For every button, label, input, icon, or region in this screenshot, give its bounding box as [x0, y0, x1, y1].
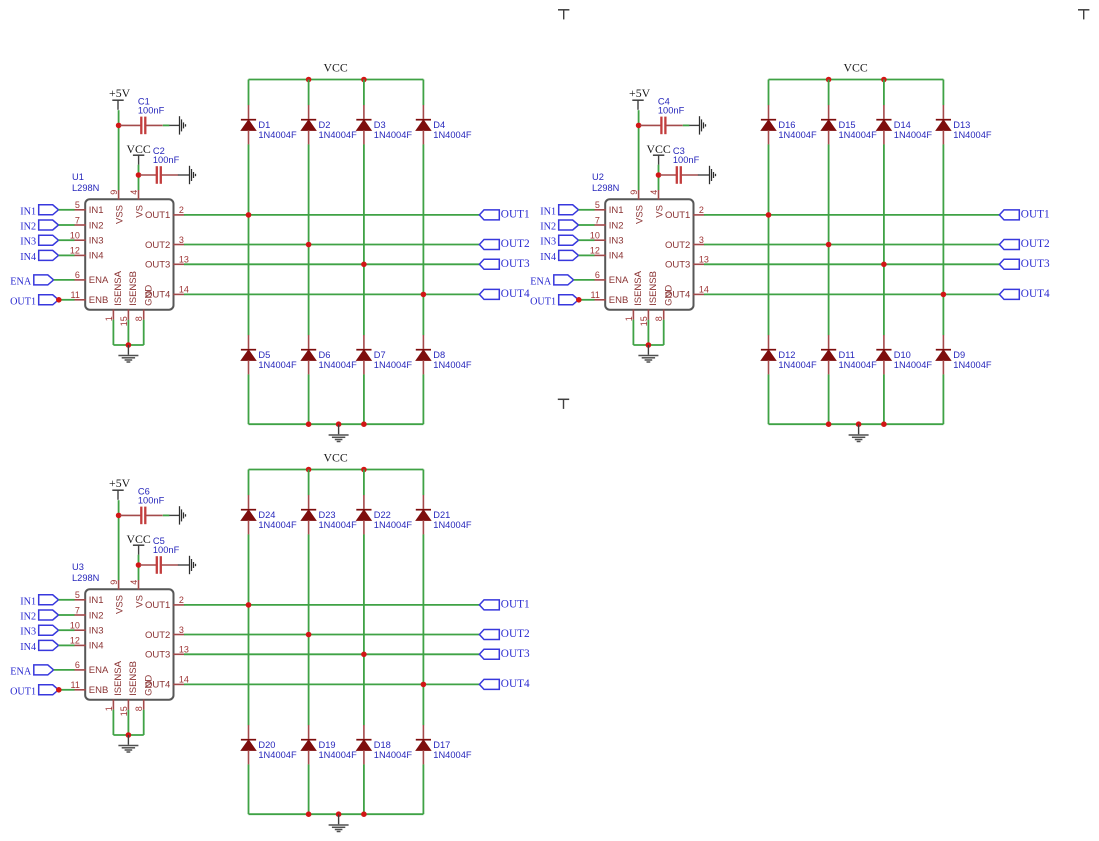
wire — [308, 764, 310, 814]
pin 8 (GND) — [654, 285, 674, 322]
junction — [881, 262, 887, 268]
svg-text:9: 9 — [109, 580, 119, 585]
capacitor C1 — [120, 97, 164, 135]
diode D14 — [876, 105, 932, 144]
svg-text:IN4: IN4 — [20, 252, 36, 263]
IC U3 L298N — [72, 562, 174, 700]
junction — [336, 421, 342, 427]
global label OUT4 — [479, 288, 530, 300]
svg-text:D4: D4 — [433, 120, 445, 130]
wire — [308, 374, 310, 424]
global label OUT2 — [999, 238, 1050, 250]
wire — [118, 500, 120, 580]
wire — [59, 689, 75, 691]
junction — [826, 77, 832, 83]
junction — [126, 732, 132, 738]
svg-text:GND: GND — [143, 675, 154, 696]
svg-text:U2: U2 — [592, 172, 604, 182]
pin 3 (OUT2) — [145, 625, 184, 641]
wire OUT3 net — [184, 263, 479, 265]
wire — [59, 629, 75, 631]
wire — [308, 144, 310, 335]
svg-text:100nF: 100nF — [153, 155, 180, 165]
svg-text:D17: D17 — [433, 740, 450, 750]
junction — [306, 77, 312, 83]
wire — [363, 80, 365, 106]
diode D20 — [241, 725, 297, 764]
wire — [308, 534, 310, 725]
svg-text:100nF: 100nF — [658, 106, 685, 116]
svg-text:OUT3: OUT3 — [501, 258, 530, 270]
svg-text:ENB: ENB — [89, 685, 109, 696]
svg-text:IN3: IN3 — [89, 236, 104, 247]
svg-text:ENA: ENA — [89, 275, 109, 286]
junction — [306, 421, 312, 427]
IC U1 L298N — [72, 172, 174, 310]
svg-text:1N4004F: 1N4004F — [953, 360, 992, 370]
junction — [56, 297, 62, 303]
svg-text:6: 6 — [595, 270, 600, 280]
capacitor C2 — [140, 146, 180, 184]
global label OUT3 — [479, 648, 530, 660]
wire — [658, 165, 660, 191]
ground — [118, 735, 138, 752]
svg-text:D9: D9 — [953, 350, 965, 360]
svg-text:IN3: IN3 — [20, 237, 36, 248]
svg-text:ENA: ENA — [10, 276, 32, 287]
pin 14 (OUT4) — [145, 285, 189, 301]
pin 6 (ENA) — [74, 270, 109, 286]
pin 6 (ENA) — [74, 660, 109, 676]
diode D12 — [761, 335, 817, 374]
svg-text:ISENSB: ISENSB — [128, 661, 139, 696]
svg-text:13: 13 — [179, 255, 189, 265]
junction — [306, 242, 312, 248]
svg-text:IN2: IN2 — [609, 220, 624, 231]
svg-text:7: 7 — [75, 605, 80, 615]
wire — [579, 299, 595, 301]
svg-text:OUT2: OUT2 — [145, 240, 170, 251]
svg-text:D11: D11 — [839, 350, 855, 360]
svg-text:L298N: L298N — [592, 183, 619, 193]
wire — [579, 254, 595, 256]
wire VCC rail — [249, 79, 424, 81]
svg-text:1: 1 — [104, 316, 114, 321]
wire — [768, 80, 770, 106]
global label OUT2 — [479, 238, 530, 250]
global label OUT1 — [479, 209, 529, 221]
pin 12 (IN4) — [70, 636, 104, 652]
svg-text:OUT2: OUT2 — [501, 238, 530, 250]
wire — [163, 124, 170, 126]
svg-text:IN2: IN2 — [540, 222, 556, 233]
svg-text:IN3: IN3 — [540, 237, 556, 248]
wire — [59, 254, 75, 256]
svg-text:5: 5 — [595, 200, 600, 210]
junction — [306, 811, 312, 817]
svg-text:IN2: IN2 — [20, 612, 36, 623]
svg-text:1N4004F: 1N4004F — [778, 360, 817, 370]
pin 13 (OUT3) — [665, 255, 709, 271]
svg-text:8: 8 — [654, 316, 664, 321]
wire — [248, 374, 250, 424]
power symbol VCC — [646, 142, 670, 165]
wire — [143, 710, 145, 735]
junction — [336, 811, 342, 817]
wire GND rail — [249, 423, 424, 425]
svg-text:VS: VS — [654, 205, 665, 218]
power symbol VCC — [126, 142, 150, 165]
ground — [118, 345, 138, 362]
svg-text:ENB: ENB — [89, 295, 109, 306]
pin 5 (IN1) — [594, 200, 623, 216]
power symbol VCC — [126, 532, 150, 555]
pin 14 (OUT4) — [665, 285, 709, 301]
wire — [308, 80, 310, 106]
svg-text:5: 5 — [75, 590, 80, 600]
pin 1 (ISENSA) — [624, 270, 644, 321]
global label ENA — [530, 275, 573, 288]
junction — [941, 292, 947, 298]
global label IN2 — [20, 610, 58, 623]
pin 12 (IN4) — [70, 246, 104, 262]
pin 4 (VS) — [129, 190, 146, 218]
wire — [579, 224, 595, 226]
diode D13 — [936, 105, 992, 144]
wire — [574, 279, 595, 281]
svg-text:4: 4 — [649, 190, 659, 195]
wire — [828, 144, 830, 335]
diode D23 — [301, 495, 357, 534]
pin 10 (IN3) — [70, 231, 104, 247]
wire — [363, 144, 365, 335]
power symbol power flag — [558, 399, 569, 409]
svg-text:1N4004F: 1N4004F — [374, 130, 413, 140]
ground — [329, 425, 349, 442]
junction — [306, 467, 312, 473]
wire — [143, 320, 145, 345]
wire — [422, 764, 424, 814]
svg-text:ENA: ENA — [10, 666, 32, 677]
pin 7 (IN2) — [74, 215, 103, 231]
diode D21 — [416, 495, 472, 534]
wire — [54, 279, 75, 281]
svg-text:100nF: 100nF — [153, 545, 180, 555]
svg-text:1N4004F: 1N4004F — [319, 360, 358, 370]
wire OUT1 net — [184, 604, 479, 606]
global label OUT3 — [479, 258, 530, 270]
svg-text:1N4004F: 1N4004F — [953, 130, 992, 140]
diode D22 — [356, 495, 412, 534]
svg-text:D18: D18 — [374, 740, 391, 750]
wire — [54, 669, 75, 671]
svg-text:ENA: ENA — [89, 665, 109, 676]
junction — [361, 77, 367, 83]
pin 4 (VS) — [129, 580, 146, 608]
svg-text:12: 12 — [70, 636, 80, 646]
pin 2 (OUT1) — [145, 205, 184, 221]
junction — [136, 562, 142, 568]
svg-text:OUT1: OUT1 — [145, 600, 170, 611]
diode D10 — [876, 335, 932, 374]
svg-text:D10: D10 — [894, 350, 911, 360]
svg-text:OUT2: OUT2 — [665, 240, 690, 251]
junction — [361, 652, 367, 658]
svg-text:IN3: IN3 — [89, 626, 104, 637]
svg-text:IN1: IN1 — [89, 595, 104, 606]
pin 11 (ENB) — [591, 290, 629, 306]
svg-text:9: 9 — [109, 190, 119, 195]
svg-text:D13: D13 — [953, 120, 970, 130]
svg-text:2: 2 — [179, 595, 184, 605]
wire — [828, 374, 830, 424]
global label IN4 — [20, 640, 58, 653]
pin 12 (IN4) — [590, 246, 624, 262]
svg-text:D20: D20 — [258, 740, 275, 750]
pin 10 (IN3) — [70, 621, 104, 637]
svg-text:7: 7 — [75, 215, 80, 225]
svg-text:4: 4 — [129, 580, 139, 585]
pin 8 (GND) — [134, 285, 154, 322]
global label IN4 — [540, 250, 578, 263]
wire — [163, 514, 170, 516]
pin 11 (ENB) — [71, 290, 109, 306]
svg-text:IN3: IN3 — [609, 236, 624, 247]
ground — [698, 166, 716, 184]
svg-text:3: 3 — [179, 625, 184, 635]
pin 11 (ENB) — [71, 680, 109, 696]
pin 5 (IN1) — [74, 590, 103, 606]
pin 13 (OUT3) — [145, 255, 189, 271]
svg-text:6: 6 — [75, 270, 80, 280]
power symbol +5V — [629, 86, 651, 110]
svg-text:OUT4: OUT4 — [501, 678, 530, 690]
svg-text:IN4: IN4 — [20, 642, 36, 653]
wire OUT2 net — [184, 244, 479, 246]
svg-text:IN1: IN1 — [20, 206, 36, 217]
pin 3 (OUT2) — [145, 235, 184, 251]
svg-text:OUT1: OUT1 — [1021, 209, 1050, 221]
pin 15 (ISENSB) — [639, 271, 659, 326]
junction — [656, 172, 662, 178]
svg-text:L298N: L298N — [72, 183, 99, 193]
svg-text:GND: GND — [143, 285, 154, 306]
wire — [363, 764, 365, 814]
wire — [942, 374, 944, 424]
svg-text:2: 2 — [699, 205, 704, 215]
wire OUT3 net — [184, 653, 479, 655]
svg-text:VS: VS — [134, 205, 145, 218]
svg-text:1N4004F: 1N4004F — [433, 520, 472, 530]
wire — [112, 320, 114, 345]
svg-text:OUT1: OUT1 — [530, 296, 556, 307]
wire — [248, 144, 250, 335]
svg-text:10: 10 — [70, 231, 80, 241]
junction — [576, 297, 582, 303]
wire OUT4 net — [184, 293, 479, 295]
wire GND rail — [769, 423, 944, 425]
svg-text:IN4: IN4 — [89, 251, 104, 262]
svg-text:OUT2: OUT2 — [501, 628, 530, 640]
svg-text:ISENSA: ISENSA — [113, 660, 124, 696]
svg-text:1N4004F: 1N4004F — [433, 750, 472, 760]
wire — [883, 80, 885, 106]
svg-text:IN1: IN1 — [540, 206, 556, 217]
svg-text:OUT4: OUT4 — [1021, 288, 1050, 300]
svg-text:OUT3: OUT3 — [1021, 258, 1050, 270]
svg-text:15: 15 — [119, 316, 129, 326]
wire — [138, 555, 140, 581]
wire — [127, 710, 129, 735]
svg-text:IN3: IN3 — [20, 627, 36, 638]
wire — [127, 320, 129, 345]
pin 9 (VSS) — [109, 580, 126, 614]
capacitor C5 — [140, 536, 180, 574]
ground — [329, 815, 349, 832]
wire OUT1 net — [184, 214, 479, 216]
svg-text:1N4004F: 1N4004F — [839, 360, 878, 370]
svg-text:D24: D24 — [258, 510, 275, 520]
pin 5 (IN1) — [74, 200, 103, 216]
svg-text:OUT2: OUT2 — [145, 630, 170, 641]
svg-text:D2: D2 — [319, 120, 331, 130]
wire — [308, 470, 310, 496]
pin 1 (ISENSA) — [104, 270, 124, 321]
wire — [59, 239, 75, 241]
junction — [826, 421, 832, 427]
wire — [118, 110, 120, 190]
wire — [59, 614, 75, 616]
pin 6 (ENA) — [594, 270, 629, 286]
wire — [59, 224, 75, 226]
diode D5 — [241, 335, 297, 374]
svg-text:D16: D16 — [778, 120, 795, 130]
svg-text:D15: D15 — [839, 120, 856, 130]
pin 1 (ISENSA) — [104, 660, 124, 711]
wire — [248, 470, 250, 496]
power symbol power flag — [1078, 10, 1089, 20]
svg-text:100nF: 100nF — [673, 155, 700, 165]
svg-text:VCC: VCC — [126, 532, 150, 546]
diode D7 — [356, 335, 412, 374]
junction — [881, 77, 887, 83]
svg-text:OUT3: OUT3 — [145, 260, 170, 271]
diode D8 — [416, 335, 472, 374]
global label IN3 — [540, 235, 578, 248]
svg-text:1N4004F: 1N4004F — [319, 130, 358, 140]
svg-text:13: 13 — [699, 255, 709, 265]
wire — [248, 534, 250, 725]
svg-text:IN2: IN2 — [20, 222, 36, 233]
wire — [363, 374, 365, 424]
svg-text:100nF: 100nF — [138, 496, 165, 506]
svg-text:VSS: VSS — [114, 595, 125, 614]
wire — [683, 124, 690, 126]
svg-text:1: 1 — [624, 316, 634, 321]
wire — [942, 80, 944, 106]
svg-text:OUT4: OUT4 — [501, 288, 530, 300]
pin 2 (OUT1) — [145, 595, 184, 611]
svg-text:VCC: VCC — [646, 142, 670, 156]
diode D24 — [241, 495, 297, 534]
diode D3 — [356, 105, 412, 144]
capacitor C4 — [640, 97, 684, 135]
svg-text:11: 11 — [591, 290, 600, 300]
wire — [942, 144, 944, 335]
wire — [633, 344, 663, 346]
pin 13 (OUT3) — [145, 645, 189, 661]
capacitor C3 — [660, 146, 700, 184]
svg-text:VS: VS — [134, 595, 145, 608]
diode D16 — [761, 105, 817, 144]
global label IN3 — [20, 235, 58, 248]
pin 9 (VSS) — [109, 190, 126, 224]
svg-text:D3: D3 — [374, 120, 386, 130]
pin 10 (IN3) — [590, 231, 624, 247]
svg-text:14: 14 — [179, 285, 189, 295]
wire — [59, 644, 75, 646]
svg-text:D23: D23 — [319, 510, 336, 520]
ground — [178, 556, 196, 574]
global label OUT1 — [10, 295, 58, 308]
diode D2 — [301, 105, 357, 144]
wire — [59, 299, 75, 301]
global label IN1 — [540, 205, 578, 218]
pin 7 (IN2) — [74, 605, 103, 621]
junction — [421, 292, 427, 298]
diode D17 — [416, 725, 472, 764]
svg-text:1N4004F: 1N4004F — [839, 130, 878, 140]
ground — [169, 116, 185, 134]
svg-text:12: 12 — [70, 246, 80, 256]
svg-text:OUT1: OUT1 — [665, 210, 690, 221]
wire VCC rail — [769, 79, 944, 81]
svg-text:D21: D21 — [433, 510, 450, 520]
svg-text:ISENSB: ISENSB — [648, 271, 659, 306]
svg-text:14: 14 — [699, 285, 709, 295]
svg-text:ISENSA: ISENSA — [113, 270, 124, 306]
junction — [361, 421, 367, 427]
wire — [248, 764, 250, 814]
power symbol +5V — [109, 476, 131, 500]
svg-text:14: 14 — [179, 675, 189, 685]
svg-text:1N4004F: 1N4004F — [894, 130, 933, 140]
svg-text:9: 9 — [629, 190, 639, 195]
svg-text:D7: D7 — [374, 350, 386, 360]
svg-text:L298N: L298N — [72, 573, 99, 583]
wire — [422, 470, 424, 496]
power symbol power flag — [558, 10, 569, 20]
svg-text:VSS: VSS — [114, 205, 125, 224]
svg-text:15: 15 — [639, 316, 649, 326]
svg-text:11: 11 — [71, 680, 80, 690]
global label ENA — [10, 275, 53, 288]
ground — [169, 506, 185, 524]
diode D9 — [936, 335, 992, 374]
svg-text:ENA: ENA — [530, 276, 552, 287]
svg-text:IN4: IN4 — [609, 251, 624, 262]
IC U2 L298N — [592, 172, 694, 310]
svg-text:ISENSB: ISENSB — [128, 271, 139, 306]
wire — [422, 144, 424, 335]
svg-text:1N4004F: 1N4004F — [433, 360, 472, 370]
svg-text:IN2: IN2 — [89, 610, 104, 621]
svg-text:OUT2: OUT2 — [1021, 238, 1050, 250]
svg-text:D1: D1 — [258, 120, 270, 130]
svg-text:VCC: VCC — [126, 142, 150, 156]
pin 7 (IN2) — [594, 215, 623, 231]
global label OUT2 — [479, 628, 530, 640]
